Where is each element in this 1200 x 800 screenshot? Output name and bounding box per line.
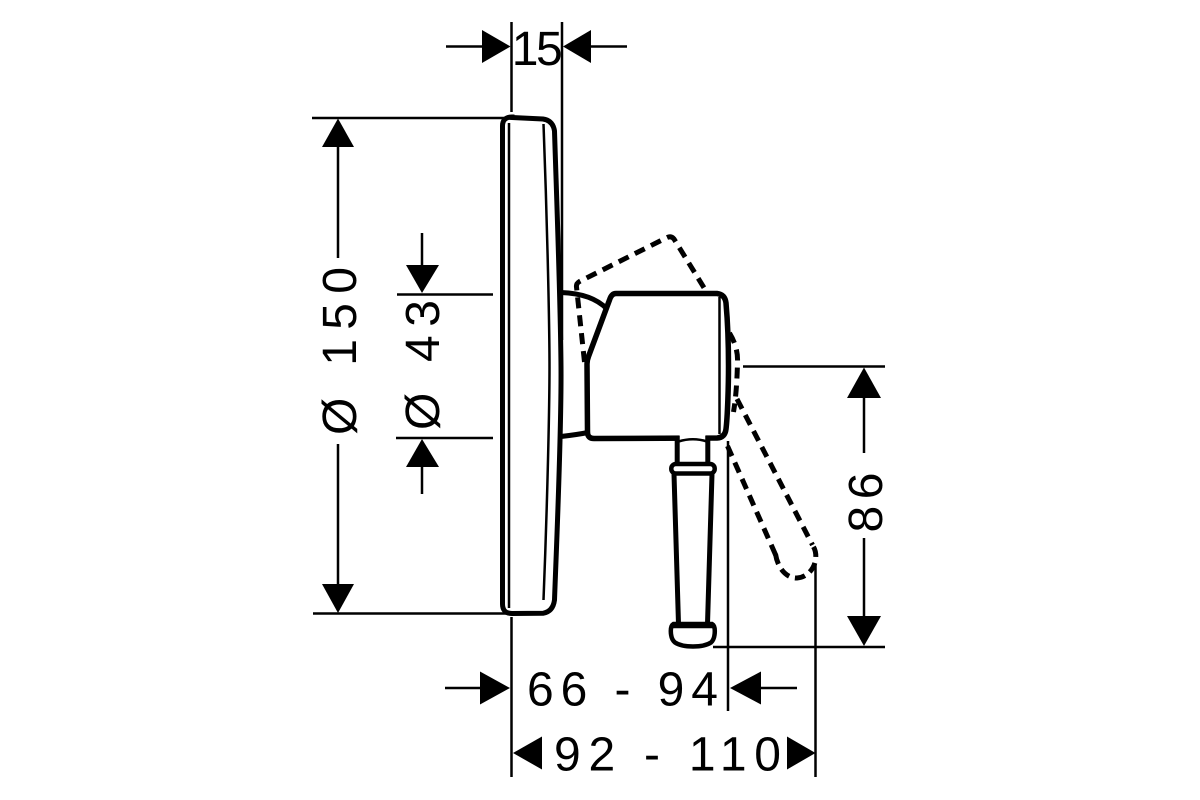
lever neck top thin arc xyxy=(679,439,708,441)
plate inner front line xyxy=(544,124,550,600)
dim Ø43: top arrow xyxy=(406,265,439,293)
dim 15: left arrow xyxy=(482,30,511,63)
dim 92-110: left arrow xyxy=(513,737,542,770)
dim 86: dimension line lower xyxy=(863,538,866,617)
sleeve bottom line xyxy=(561,433,588,437)
dim 66-94: right arrow xyxy=(730,672,761,705)
lever shaft xyxy=(674,474,712,624)
dashed handle rotated: lever left edge xyxy=(728,446,778,558)
sleeve top line xyxy=(561,293,607,310)
dim Ø43: bottom arrow xyxy=(406,439,439,467)
dim Ø150: bottom extension line xyxy=(313,612,507,615)
dim 15: left extension line xyxy=(510,22,513,112)
dim 15: left leader xyxy=(446,45,484,48)
dashed handle rotated: lever end cap xyxy=(776,546,816,578)
ext line dashed lever tip (92-110) xyxy=(814,564,817,777)
dim 66-94: right leader xyxy=(760,687,797,690)
dim 15: right extension line xyxy=(561,22,564,340)
dashed handle rotated: lever right edge xyxy=(737,399,813,545)
dim Ø150: dimension line lower xyxy=(337,444,340,586)
svg-text:Ø 150: Ø 150 xyxy=(314,267,367,435)
dim Ø150: dimension line upper xyxy=(337,146,340,258)
dim 86: bottom extension line xyxy=(713,646,885,649)
svg-text:15: 15 xyxy=(512,23,561,76)
dim Ø43: top extension line xyxy=(397,293,493,296)
dim 86: top arrow xyxy=(847,368,881,399)
dim 15: right leader xyxy=(590,45,627,48)
dim 86: bottom arrow xyxy=(847,616,881,646)
dim Ø150: top extension line xyxy=(312,117,504,120)
dim Ø43: top stem xyxy=(421,233,424,266)
dim 86: dimension line upper xyxy=(863,397,866,453)
lever neck sides xyxy=(677,436,708,465)
dim 15: right arrow xyxy=(563,30,591,63)
valve body xyxy=(587,294,729,439)
dim Ø150: top arrow xyxy=(322,119,354,148)
valve body inner face line xyxy=(718,297,721,434)
plate inner back line xyxy=(508,123,511,608)
dim 66-94: left arrow xyxy=(480,672,510,705)
dim 86: top extension line xyxy=(743,365,885,368)
dim Ø43: bottom extension line xyxy=(396,437,493,440)
dashed handle rotated: body outline xyxy=(576,237,706,362)
dim 66-94: left leader xyxy=(445,687,481,690)
dim Ø150: bottom arrow xyxy=(322,584,354,613)
dashed handle rotated: lower corner bulge xyxy=(730,333,738,412)
lever collar xyxy=(671,464,714,474)
dim 92-110: right arrow xyxy=(787,737,816,770)
dim Ø43: bottom stem xyxy=(421,467,424,494)
escutcheon plate outer outline xyxy=(503,117,562,614)
ext line left wall (bottom dims) xyxy=(510,617,513,777)
ext line body right (66-94) xyxy=(727,441,730,711)
lever end cap xyxy=(671,624,715,647)
lever neck (erases body bottom edge across its width) xyxy=(680,433,706,463)
lever end cap ring line xyxy=(672,626,714,629)
